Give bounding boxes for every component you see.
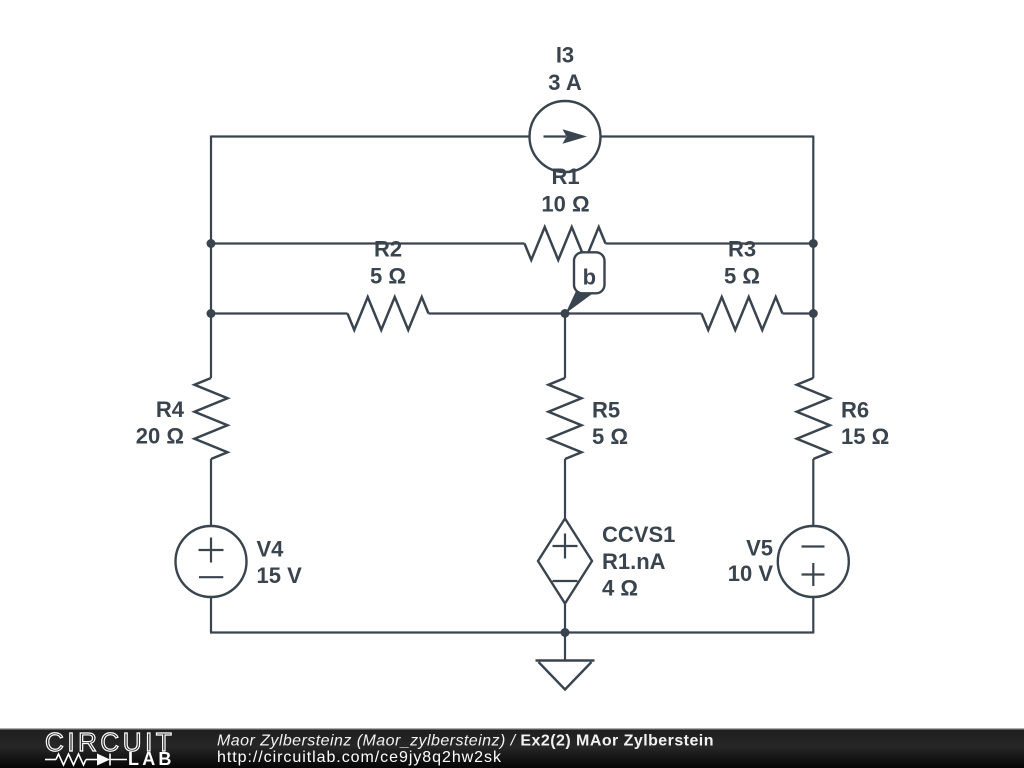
resistor R5 [549, 378, 582, 459]
wire top left [211, 135, 530, 137]
svg-text:Maor Zylbersteinz (Maor_zylber: Maor Zylbersteinz (Maor_zylbersteinz) / … [217, 733, 714, 750]
wire mid vertical between R5 and CCVS1 [564, 459, 566, 519]
dependent source CCVS1 [538, 519, 592, 604]
resistor R2 [348, 297, 429, 330]
wire row2 right [606, 242, 814, 244]
voltage source V4 [176, 526, 247, 597]
svg-text:R5: R5 [592, 398, 620, 423]
voltage source V5 [778, 526, 849, 597]
wire top right [601, 135, 814, 137]
resistor R1 [525, 227, 606, 260]
wire ground stub [564, 633, 566, 661]
junction dot right row2 [809, 239, 818, 248]
junction dot left row3 [207, 309, 216, 318]
svg-text:R6: R6 [841, 398, 869, 423]
junction dot left row2 [207, 239, 216, 248]
current source I3 [530, 101, 601, 172]
resistor R4 [195, 378, 228, 459]
svg-text:3 A: 3 A [548, 70, 582, 95]
node flag b [566, 252, 605, 313]
svg-text:15 V: 15 V [257, 563, 303, 588]
wire left rail mid [210, 459, 212, 527]
wire row2 left [211, 242, 525, 244]
svg-text:10 Ω: 10 Ω [541, 192, 589, 217]
wire bottom [210, 631, 814, 633]
svg-text:10 V: 10 V [728, 561, 774, 586]
svg-text:20 Ω: 20 Ω [136, 424, 184, 449]
wire left rail lower [210, 597, 212, 633]
resistor R6 [797, 378, 830, 459]
wire right rail mid [812, 459, 814, 527]
junction dot bottom [561, 628, 570, 637]
svg-text:V5: V5 [746, 536, 773, 561]
svg-text:5 Ω: 5 Ω [592, 424, 628, 449]
svg-text:R2: R2 [374, 237, 402, 262]
svg-text:R1.nA: R1.nA [602, 549, 666, 574]
logo diode triangle [97, 754, 110, 766]
svg-text:CCVS1: CCVS1 [602, 522, 675, 547]
ground [536, 661, 595, 690]
wire right rail upper [812, 136, 814, 379]
svg-text:5 Ω: 5 Ω [724, 264, 760, 289]
svg-text:http://circuitlab.com/ce9jy8q2: http://circuitlab.com/ce9jy8q2hw2sk [217, 749, 502, 766]
svg-text:R3: R3 [728, 237, 756, 262]
wire row3 right [783, 312, 814, 314]
wire mid vertical upper [564, 314, 566, 379]
node b junction dot [561, 309, 570, 318]
svg-text:5 Ω: 5 Ω [370, 264, 406, 289]
wire left rail upper [210, 136, 212, 379]
logo schematic glyph [45, 754, 127, 766]
wire row3 mid [429, 312, 702, 314]
svg-text:R4: R4 [156, 397, 185, 422]
svg-text:b: b [583, 265, 596, 290]
svg-text:V4: V4 [257, 537, 285, 562]
footer bar top highlight [0, 728, 1024, 729]
svg-text:I3: I3 [556, 43, 574, 68]
junction dot right row3 [809, 309, 818, 318]
wire mid vertical lower [564, 604, 566, 633]
resistor R3 [702, 297, 783, 330]
svg-text:R1: R1 [551, 164, 579, 189]
svg-text:4 Ω: 4 Ω [602, 576, 638, 601]
wire row3 left [211, 312, 348, 314]
svg-text:LAB: LAB [128, 749, 175, 768]
footer bar [0, 729, 1024, 768]
svg-text:15 Ω: 15 Ω [841, 424, 889, 449]
wire right rail lower [812, 597, 814, 633]
